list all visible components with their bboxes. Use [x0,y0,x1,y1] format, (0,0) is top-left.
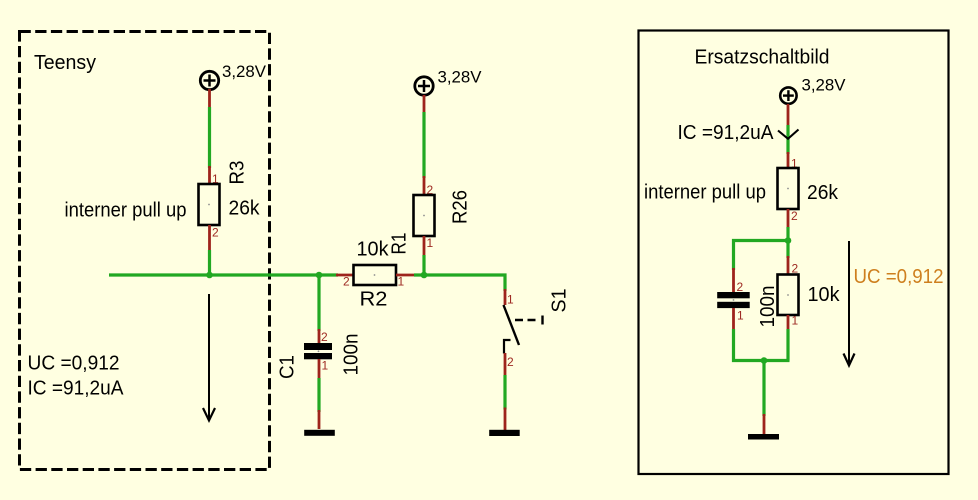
wire loop bottom to ground [762,361,765,435]
svg-text:100n: 100n [757,286,779,328]
ground (C1) [304,430,335,436]
svg-text:2: 2 [212,226,219,240]
switch S1 fixed contact [504,340,511,354]
ground (right) [748,434,779,440]
current direction chevron [778,130,799,139]
svg-text:26k: 26k [229,198,261,220]
svg-text:R1: R1 [389,233,411,255]
wire R2 left stub [336,274,354,277]
svg-text:R26: R26 [450,190,472,224]
wire node to switch corner [414,275,505,291]
wire R2 right stub [396,274,415,277]
wire node to C1 [317,275,320,344]
wire switch to ground [504,353,507,430]
Teensy block dashed box [20,32,270,470]
wire corner to switch pin 1 [504,289,507,305]
resistor R2 body [354,265,397,285]
wire 10k to loop bottom [787,315,790,361]
power supply symbol 3,28V (right) [780,87,796,103]
svg-text:C1: C1 [277,355,299,379]
switch S1 blade [504,305,520,345]
svg-text:interner pull up: interner pull up [644,182,766,204]
power supply symbol 3,28V (middle) [415,77,433,95]
svg-text:2: 2 [321,330,328,344]
wire supply to R3 [208,89,211,184]
wire supply to R26 [423,95,426,195]
wire C1 to ground [318,359,321,429]
svg-text:1: 1 [507,293,514,307]
svg-text:2: 2 [737,280,744,294]
switch S1 actuator dashed link [515,319,540,321]
resistor 10k body [778,275,799,316]
node junction at R3 [206,272,213,279]
wire capacitor top stub [732,268,735,292]
horizontal net wire [109,273,338,276]
switch S1 actuator bar [541,316,543,325]
svg-text:IC =91,2uA: IC =91,2uA [28,378,125,400]
capacitor plates (right) [717,292,750,308]
pull up resistor body [778,168,799,209]
svg-text:2: 2 [791,209,798,223]
svg-text:2: 2 [507,355,514,369]
wire pull up to node [787,209,790,241]
svg-text:1: 1 [737,309,744,323]
svg-text:R2: R2 [360,289,388,311]
node junction at R26 [421,272,428,279]
current arrow (left) [203,294,215,421]
voltage arrow (right) [844,241,855,366]
resistor R3 body [199,184,220,225]
svg-text:3,28V: 3,28V [222,63,266,81]
svg-text:100n: 100n [341,334,363,376]
wire R26 to node [423,236,426,276]
svg-text:3,28V: 3,28V [438,69,482,87]
node junction (right bottom) [761,357,768,364]
svg-text:2: 2 [343,275,350,289]
svg-text:Teensy: Teensy [34,52,96,74]
Ersatzschaltbild box [639,31,949,475]
svg-text:1: 1 [322,359,329,373]
svg-text:Ersatzschaltbild: Ersatzschaltbild [695,47,830,69]
resistor R26 body [414,195,435,236]
power supply symbol 3,28V (left) [200,71,218,89]
svg-text:26k: 26k [807,182,839,204]
svg-text:UC =0,912: UC =0,912 [28,353,120,375]
svg-text:UC =0,912: UC =0,912 [854,266,944,288]
ground (S1) [489,430,520,436]
svg-text:1: 1 [792,314,799,328]
capacitor C1 plates [304,343,332,359]
svg-text:interner pull up: interner pull up [65,200,187,222]
svg-text:S1: S1 [549,289,571,313]
svg-text:1: 1 [398,275,405,289]
node junction at C1 [316,272,323,279]
svg-text:IC =91,2uA: IC =91,2uA [678,122,775,144]
wire node to 10k resistor [786,241,789,275]
wire supply to pull up resistor [787,104,790,168]
node junction (right top) [785,237,792,244]
wire capacitor bottom to loop [734,308,790,361]
svg-text:1: 1 [427,236,434,250]
svg-text:R3: R3 [227,161,249,185]
svg-text:10k: 10k [808,284,841,306]
svg-text:3,28V: 3,28V [802,77,846,95]
svg-text:10k: 10k [357,239,390,261]
wire R3 to node [208,225,211,276]
wire loop top and left to capacitor [734,241,789,271]
